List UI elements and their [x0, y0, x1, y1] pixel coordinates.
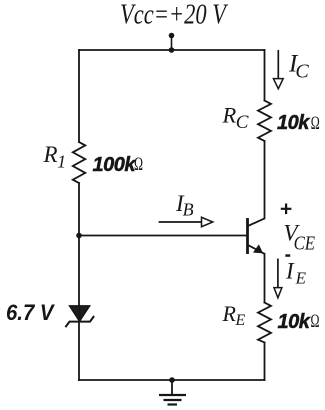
- node Vcc terminal stub: [169, 33, 175, 53]
- svg-text:VCE: VCE: [284, 221, 316, 255]
- svg-text:RC: RC: [222, 103, 249, 134]
- wire bottom rail: [79, 379, 265, 381]
- wire emitter (transistor to RE): [264, 254, 266, 303]
- resistor RE: [258, 303, 271, 343]
- label - (VCE minus): [285, 254, 290, 256]
- wire base (node A to transistor base): [79, 235, 247, 237]
- current arrow IB: [159, 217, 213, 226]
- ground: [159, 377, 186, 404]
- svg-text:10k: 10k: [277, 112, 310, 134]
- wire right lower (RE to bottom rail): [264, 343, 266, 381]
- svg-text:Ω: Ω: [311, 311, 320, 332]
- svg-text:Ω: Ω: [134, 154, 143, 175]
- svg-text:10k: 10k: [278, 311, 311, 333]
- wire right upper (top rail to RC): [264, 50, 266, 101]
- svg-text:IC: IC: [288, 51, 309, 83]
- wire left lower (zener to bottom rail): [78, 322, 80, 380]
- zener diode D1 (6.7 V): [66, 306, 94, 327]
- svg-text:R1: R1: [43, 142, 67, 172]
- wire left middle (R1 to zener): [78, 183, 80, 306]
- svg-text:Ω: Ω: [311, 113, 320, 134]
- svg-text:100k: 100k: [93, 154, 137, 176]
- svg-text:RE: RE: [222, 301, 246, 329]
- resistor RC: [258, 101, 271, 142]
- wire collector (RC to transistor): [264, 141, 266, 218]
- current arrow IC: [273, 50, 283, 89]
- wire left upper (top rail to R1): [78, 50, 80, 142]
- resistor R1: [73, 142, 86, 183]
- current arrow IE: [274, 259, 282, 298]
- transistor Q1: [248, 218, 265, 254]
- svg-text:IB: IB: [175, 191, 194, 220]
- wire top rail: [79, 49, 265, 51]
- svg-text:Vcc=+20 V: Vcc=+20 V: [120, 0, 229, 31]
- label + (VCE plus): [281, 204, 292, 215]
- svg-text:IE: IE: [285, 259, 307, 288]
- svg-text:6.7 V: 6.7 V: [6, 300, 56, 325]
- node A junction dot (base node): [76, 233, 82, 239]
